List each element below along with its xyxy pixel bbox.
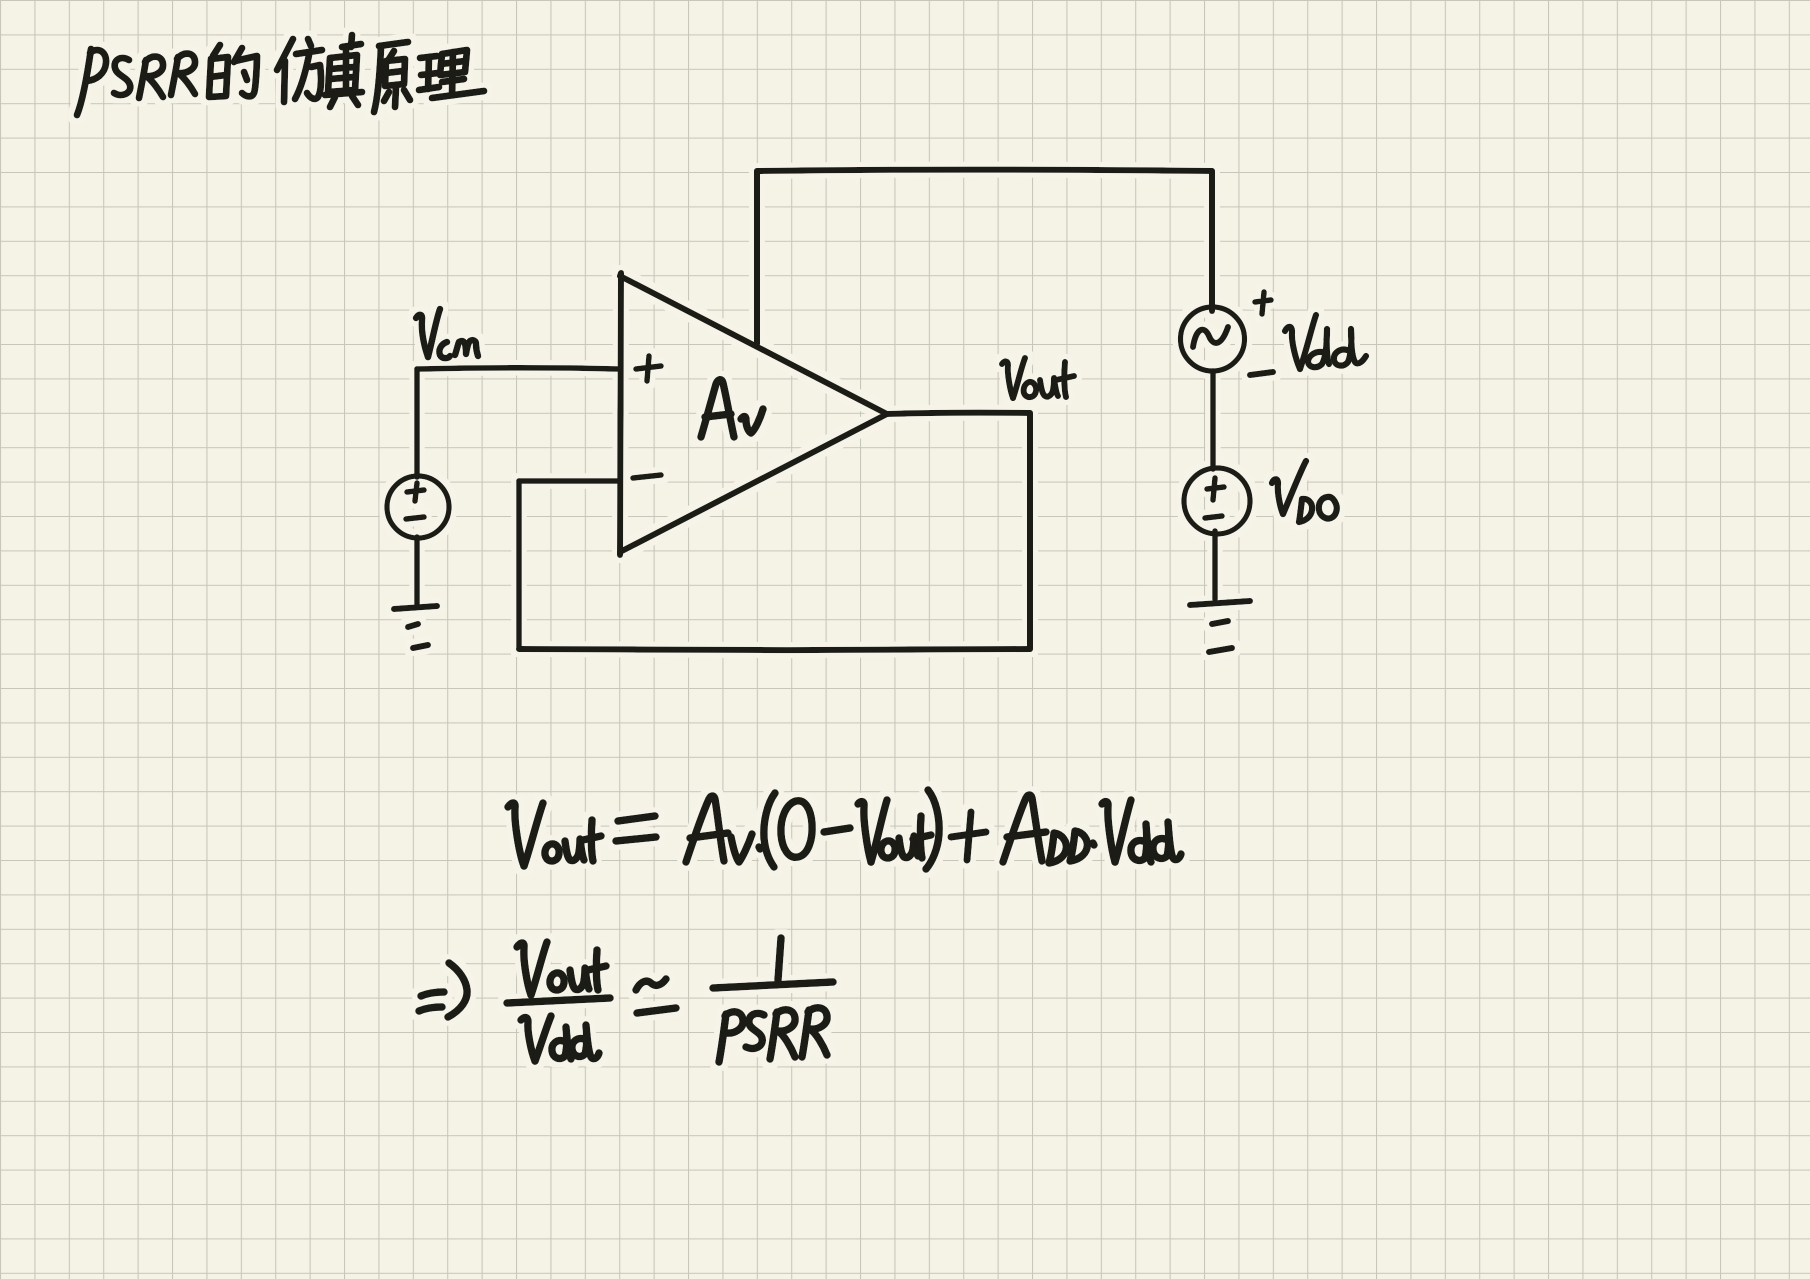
wire: Vcm down to source V1 (414, 369, 420, 477)
wire: rail down to AC source (1209, 171, 1215, 311)
eq1 0 (781, 801, 812, 858)
letter P (77, 49, 91, 115)
eq2 Vout numerator (517, 943, 531, 995)
ground GND1 (394, 606, 437, 648)
eq1 Vout (508, 803, 524, 866)
node label Vcm (416, 309, 478, 358)
wire: feedback bottom (519, 649, 1030, 650)
eq2 PSRR (719, 1014, 726, 1062)
op-amp - input pin mark (633, 475, 661, 478)
eq1 + (951, 812, 986, 860)
hanzi 原 (379, 42, 408, 46)
op-amp label Av (701, 380, 763, 437)
eq2 fraction bar A (507, 998, 610, 1003)
AC source - label (1250, 372, 1273, 375)
eq1 dot (1093, 843, 1094, 845)
letter S (114, 58, 130, 95)
eq2 arrow (421, 992, 444, 996)
eq2 approx (636, 979, 666, 990)
V1 minus mark (406, 517, 424, 519)
V1 plus mark (407, 483, 424, 501)
letter R (139, 60, 146, 98)
eq1 Vout (858, 802, 871, 862)
op-amp U1 triangle (620, 273, 887, 555)
AC source sine mark (1193, 327, 1228, 347)
AC source Vdd (ripple) (1181, 307, 1245, 371)
eq1 ) (926, 790, 939, 869)
wire: into - input (519, 478, 620, 484)
eq1 - (824, 828, 850, 832)
wire: op-amp output Vout (887, 413, 1030, 414)
eq2 fraction bar B (713, 982, 833, 988)
node label Vout (1002, 358, 1074, 398)
letter R (171, 57, 178, 95)
wire: VDD to ground (1212, 531, 1218, 599)
eq1 ( (764, 793, 775, 867)
hanzi 的 (213, 45, 220, 56)
label VDD (1272, 461, 1337, 522)
equation 2: => Vout/Vdd ~ 1/PSRR (419, 938, 833, 1062)
label Vdd (1285, 315, 1366, 369)
voltage source V1 (Vcm) (387, 476, 449, 538)
wire: V1 to ground (414, 537, 420, 604)
wire: op-amp top to supply rail (754, 171, 760, 344)
wire: AC source to VDD source (1210, 371, 1216, 469)
hanzi 真 (351, 35, 352, 47)
AC source + label (1255, 292, 1271, 314)
equation 1: Vout = Av(0-Vout) + ADD*Vdd (508, 790, 1181, 869)
VDD plus mark (1207, 478, 1224, 500)
title: PSRR的仿真原理 (77, 35, 484, 115)
wire: feedback up to - input (516, 481, 522, 649)
eq1 = (618, 816, 655, 821)
eq2 Vdd denominator (521, 1018, 535, 1061)
eq1 Vdd (1102, 802, 1115, 862)
op-amp + input pin mark (636, 356, 661, 381)
hanzi 理 (420, 56, 437, 58)
eq2 1 (778, 938, 781, 980)
ground GND2 (1190, 601, 1250, 652)
VDD minus mark (1205, 516, 1222, 518)
wire: Vcm to op-amp + input (417, 368, 620, 369)
eq1 Av (686, 796, 724, 862)
wire: supply rail horizontal (757, 170, 1212, 171)
hanzi 仿 (277, 39, 293, 70)
DC source VDD (1184, 468, 1250, 534)
eq1 DD subscript (1049, 833, 1066, 863)
wire: Vout down right side (1027, 413, 1033, 649)
eq1 A (1003, 795, 1042, 862)
